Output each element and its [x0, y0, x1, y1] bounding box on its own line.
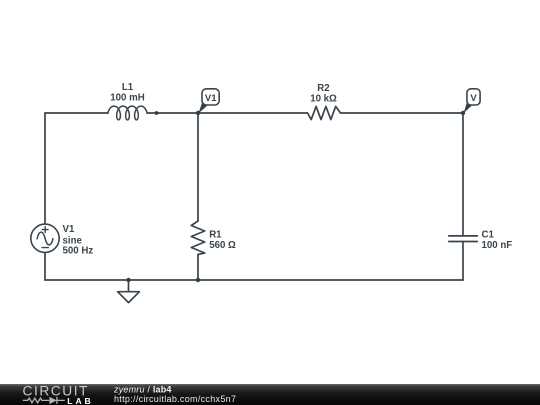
- wire top-left horizontal: [45, 112, 108, 114]
- junction ground: [126, 278, 130, 282]
- junction R1 bottom: [196, 278, 200, 282]
- inductor L1: [108, 106, 147, 120]
- V1 plus sign: [42, 227, 48, 233]
- ground symbol: [118, 280, 140, 303]
- svg-text:L1: L1: [122, 82, 134, 93]
- svg-text:V: V: [470, 93, 477, 104]
- wire top-middle horizontal: [147, 112, 308, 114]
- voltage source V1 circle: [31, 224, 59, 252]
- svg-text:R1: R1: [209, 230, 222, 241]
- wire bottom horizontal: [45, 279, 463, 281]
- svg-text:V1: V1: [63, 224, 75, 235]
- resistor R2: [308, 106, 341, 119]
- node label V box: [467, 89, 480, 105]
- svg-text:100 mH: 100 mH: [110, 93, 144, 104]
- svg-text:R2: R2: [317, 83, 329, 94]
- capacitor C1: [449, 236, 478, 242]
- svg-text:C1: C1: [482, 229, 495, 240]
- svg-text:100 nF: 100 nF: [482, 240, 513, 251]
- svg-text:500 Hz: 500 Hz: [63, 245, 94, 256]
- svg-text:zyemru / lab4: zyemru / lab4: [113, 384, 172, 394]
- V1 minus sign: [42, 247, 48, 249]
- svg-text:V1: V1: [205, 93, 217, 104]
- wire right vertical lower: [462, 242, 464, 281]
- svg-text:560 Ω: 560 Ω: [209, 240, 236, 251]
- svg-text:10 kΩ: 10 kΩ: [310, 94, 337, 105]
- V1 sine symbol: [37, 232, 53, 245]
- resistor R1: [191, 221, 204, 255]
- node label V1 box: [202, 89, 219, 105]
- svg-text:LAB: LAB: [67, 396, 93, 405]
- svg-text:http://circuitlab.com/cchx5n7: http://circuitlab.com/cchx5n7: [114, 394, 236, 404]
- wire right vertical upper: [462, 113, 464, 236]
- node label V pointer: [463, 101, 472, 114]
- junction node V1 top: [196, 111, 200, 115]
- junction node V top-right: [461, 111, 465, 115]
- wire top-right horizontal: [341, 112, 464, 114]
- wire middle vertical upper: [197, 113, 199, 221]
- junction after L1: [155, 111, 159, 115]
- CircuitLab logo mark resistor-diode: [23, 397, 65, 404]
- wire middle vertical lower: [197, 255, 199, 281]
- wire left vertical lower: [44, 253, 46, 280]
- wire left vertical upper: [44, 113, 46, 224]
- node label V1 pointer: [198, 101, 208, 114]
